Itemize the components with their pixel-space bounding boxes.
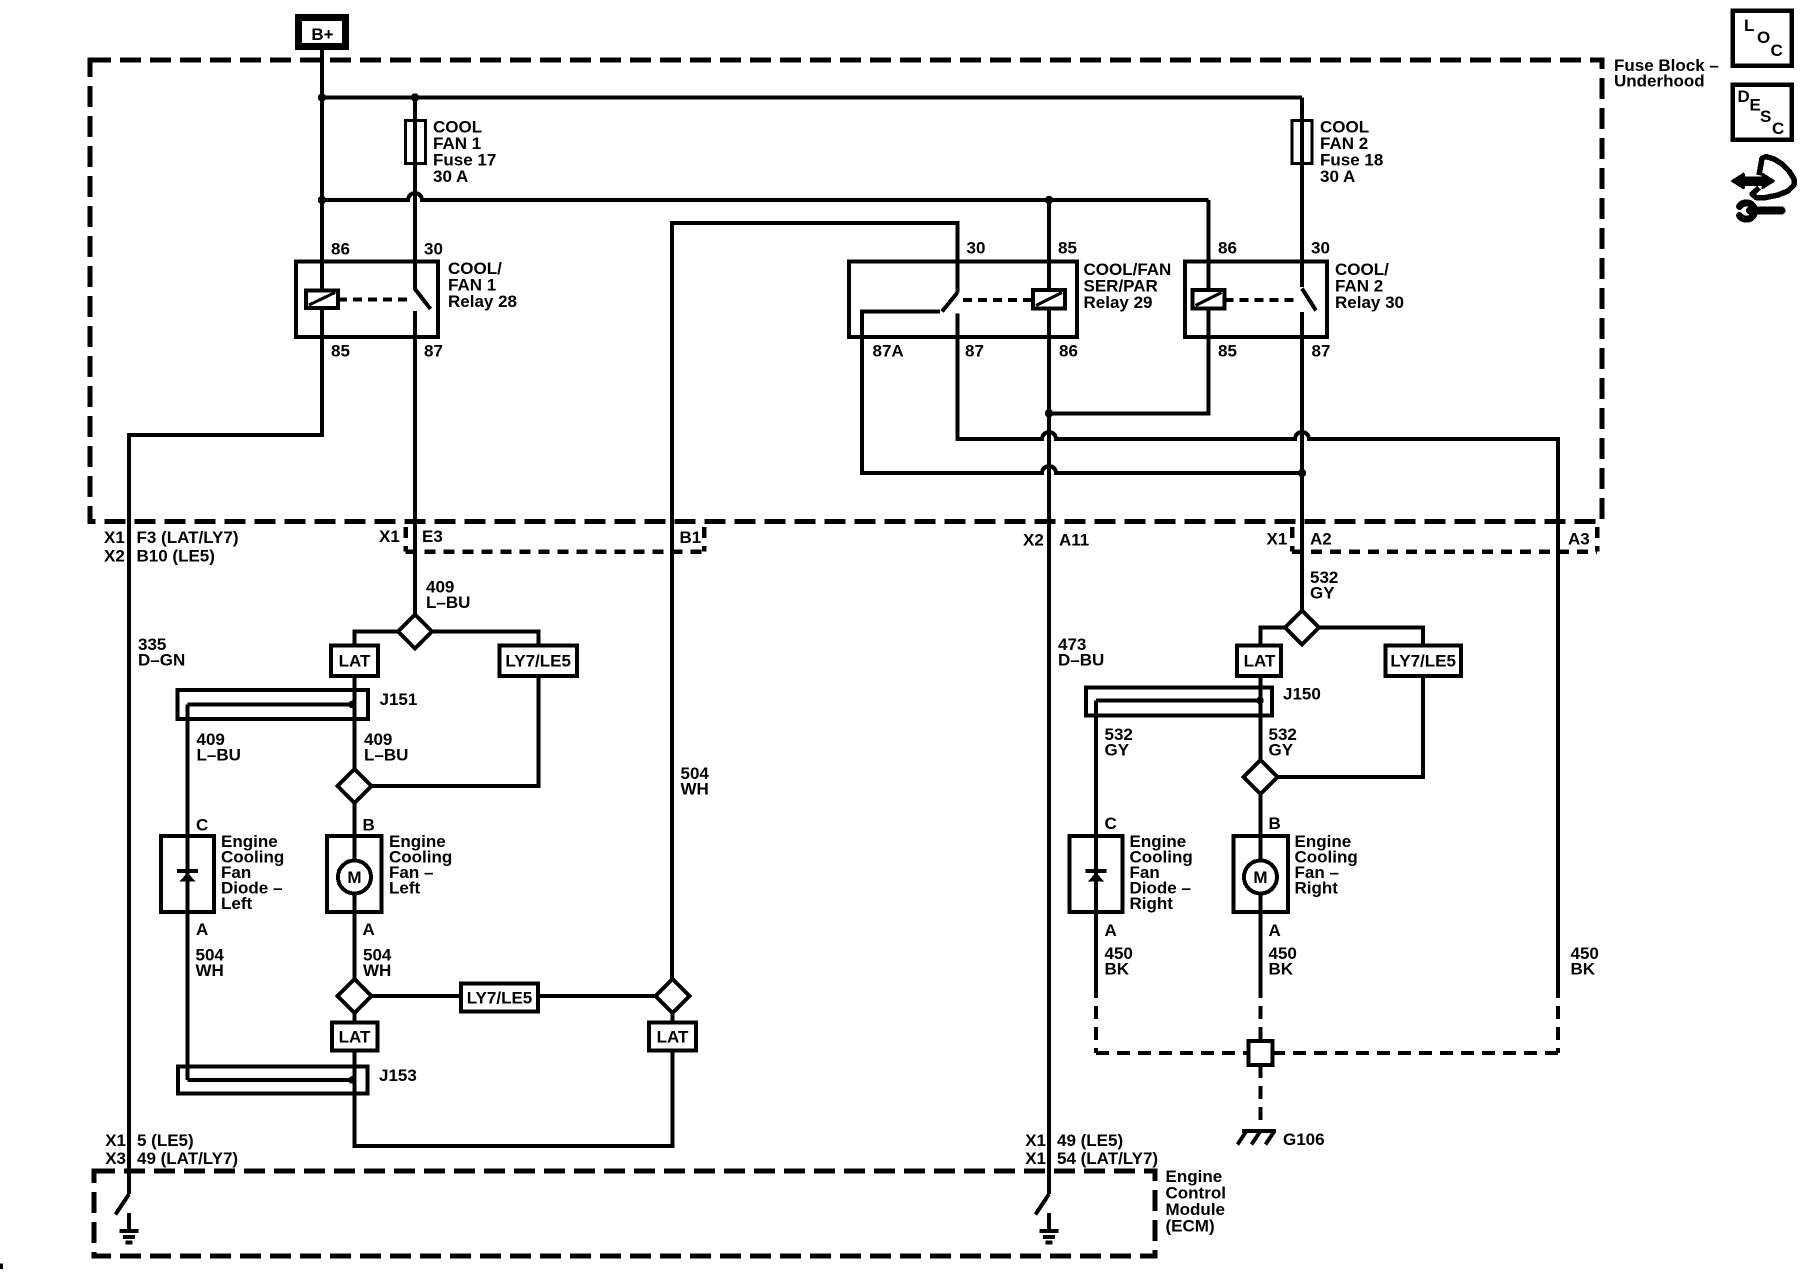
navigation arrows and wrench icon [1733,157,1795,220]
dashed wire right run to splice box [1273,1051,1559,1055]
svg-text:D–BU: D–BU [1058,651,1104,670]
svg-text:L–BU: L–BU [197,746,241,765]
wire relay 28 coil bottom to F3/B10 335 D-GN down to ECM [129,308,322,1194]
wire B1 bus from relay 29 pin 30 down to left fan circuit [672,223,958,979]
LY7/LE5 tag box left upper [500,646,578,677]
svg-text:X1: X1 [104,528,125,547]
splice diamond on 532 GY A2 [1285,611,1319,645]
svg-text:Relay 30: Relay 30 [1335,293,1404,312]
fuse block underhood dashed border [90,60,1602,522]
label 504 WH B1 wire [681,764,710,799]
wire J151 down to splice 409 L-BU [353,705,357,770]
wire LAT to J153 [353,1051,357,1081]
svg-text:30 A: 30 A [1320,167,1355,186]
label 450 BK fan branch [1269,944,1297,979]
label engine cooling fan right [1295,832,1358,898]
svg-text:B1: B1 [680,528,702,547]
node X2 A11 label [1023,531,1089,550]
svg-text:LAT: LAT [1244,652,1276,671]
LAT tag box right upper [1237,646,1281,677]
svg-text:86: 86 [331,240,350,259]
wire splice to LAT branch [355,632,399,646]
dashed wire splice box to G106 [1259,1065,1263,1122]
page corner artifact mark [0,1264,3,1270]
label 473 D-BU [1058,635,1104,670]
svg-text:X3: X3 [105,1149,126,1168]
relay 28 dashed actuator link [338,298,410,302]
node X1 E3 label [379,527,443,546]
wire LAT to J150 [1259,676,1263,701]
label engine control module [1166,1167,1226,1236]
ground G106 symbol [1238,1131,1277,1145]
svg-text:B+: B+ [311,25,333,44]
svg-text:30 A: 30 A [433,167,468,186]
svg-text:87: 87 [1312,342,1331,361]
wire top bus B+ to fuse 2 [322,96,1302,100]
svg-text:L–BU: L–BU [426,593,470,612]
wire second bus to relay 29 pin 85 and relay 30 pin 86 with hop over fuse 1 wire [322,193,1209,200]
node X1 F3 / X2 B10 labels [104,528,239,566]
relay 29 switch arm [942,293,958,312]
node X1 49 / X1 54 labels [1025,1131,1158,1168]
svg-text:D–GN: D–GN [138,651,185,670]
label 532 GY fan branch [1269,725,1297,760]
fuse F1 COOL FAN 1 [406,121,426,164]
dashed wire A3 450 BK to ground splice [1556,985,1560,1053]
LAT tag box left lower [332,1023,378,1051]
svg-text:30: 30 [967,239,986,258]
svg-text:87: 87 [965,342,984,361]
label Fuse Block - Underhood [1614,56,1719,91]
label engine cooling fan diode left [221,832,284,913]
node X1 A2 label [1267,530,1332,549]
svg-text:86: 86 [1218,239,1237,258]
battery B+ terminal box [299,18,346,47]
label 409 L-BU fan branch [364,730,408,765]
svg-text:A: A [1269,921,1281,940]
svg-text:85: 85 [1058,239,1077,258]
wire splice down to fan B [1259,794,1263,836]
svg-text:Relay 29: Relay 29 [1084,293,1153,312]
svg-text:C: C [1772,119,1784,138]
ECM left ground symbol [120,1213,139,1243]
svg-text:G106: G106 [1283,1130,1325,1149]
svg-text:B: B [1269,814,1281,833]
svg-text:GY: GY [1105,741,1130,760]
inline LY7/LE5 tag box [461,984,538,1012]
wire branch to relay 30 pin 85 [1049,309,1209,414]
svg-text:Underhood: Underhood [1614,72,1705,91]
wire splice to right LY7/LE5 box bottom [1278,676,1424,777]
wire splice to LY7/LE5 box bottom [372,676,539,786]
splice diamond above left fan [338,769,372,803]
ECM left internal ground blade [116,1194,130,1215]
junction dot fuse 1 tap [411,93,419,101]
svg-text:S: S [1760,107,1771,126]
svg-text:O: O [1757,28,1770,47]
node X1 5 / X3 49 labels [105,1131,238,1168]
svg-text:B: B [363,816,375,835]
relay 30 pin 87 wire down to A2 532 GY [1300,312,1304,611]
relay K30 COOL/FAN 2 Relay box [1185,262,1327,338]
svg-text:X1: X1 [1025,1131,1046,1150]
svg-text:L: L [1744,16,1754,35]
LAT tag box right lower [649,1023,696,1051]
wire splice down to fan B [353,803,357,836]
label 532 GY diode branch [1105,725,1133,760]
svg-text:85: 85 [331,342,350,361]
dashed wire fan A to ground splice [1259,985,1263,1041]
svg-text:30: 30 [424,240,443,259]
wire LAT to J151 [353,676,357,705]
relay 29 coil [1033,290,1065,309]
svg-text:X1: X1 [1025,1149,1046,1168]
svg-text:54 (LAT/LY7): 54 (LAT/LY7) [1057,1149,1158,1168]
LOC icon box [1733,11,1792,66]
svg-text:A: A [1105,921,1117,940]
svg-text:A: A [363,920,375,939]
svg-text:(ECM): (ECM) [1166,1217,1215,1236]
relay K29 COOL/FAN SER/PAR Relay box [849,262,1077,338]
svg-text:J150: J150 [1283,685,1321,704]
wire J151 left tap down to diode C 409 L-BU [186,705,190,837]
svg-text:C: C [1771,41,1783,60]
connector X1 fine dashed line A2 to A3 [1292,527,1597,552]
svg-text:E3: E3 [422,527,443,546]
svg-text:30: 30 [1311,239,1330,258]
svg-text:LY7/LE5: LY7/LE5 [505,652,571,671]
wire left splice to LAT [353,1013,357,1023]
label 409 L-BU at E3 [426,578,470,613]
svg-text:C: C [1105,814,1117,833]
wire J150 down to splice 532 GY [1259,701,1263,761]
splice diamond left fan A [338,979,372,1013]
svg-text:LAT: LAT [657,1028,689,1047]
relay 28 pin 87 lead [413,311,417,337]
LY7/LE5 tag box right upper [1386,646,1462,677]
engine cooling fan motor right box [1234,836,1289,985]
fuse F2 COOL FAN 2 [1292,121,1312,164]
label 335 D-GN [138,635,185,670]
splice diamond on 409 L-BU [398,615,432,649]
relay 30 dashed actuator link [1225,298,1296,302]
svg-text:X1: X1 [1267,530,1288,549]
svg-text:BK: BK [1105,960,1130,979]
wire splice to inline LY7/LE5 [372,994,462,998]
label relay 29 [1084,260,1172,312]
junction dot 87A to A2 wire [1298,469,1306,477]
wire diode A down to J153 [186,912,190,1080]
relay 28 switch arm [415,289,431,309]
label engine cooling fan left [389,832,452,898]
wire relay 30 pin 86 drop [1207,200,1211,290]
svg-text:X2: X2 [1023,531,1044,550]
svg-text:LY7/LE5: LY7/LE5 [467,989,533,1008]
junction dot relay 29 pin 85 tap [1045,196,1053,204]
connector X1 fine dashed line E3 to B1 [406,527,705,552]
svg-text:X1: X1 [105,1131,126,1150]
svg-text:C: C [196,816,208,835]
dashed wire left run to splice box [1096,1051,1249,1055]
DESC icon box [1733,85,1792,140]
svg-text:J151: J151 [380,690,418,709]
svg-text:WH: WH [363,961,391,980]
svg-text:M: M [1253,868,1267,887]
svg-text:X1: X1 [379,527,400,546]
wire relay 28 pin 87 down through E3 409 L-BU to splice [413,312,417,615]
svg-text:87: 87 [424,342,443,361]
label relay 30 [1335,260,1404,312]
LAT tag box left upper [331,646,378,677]
svg-text:Left: Left [389,879,421,898]
svg-text:Left: Left [221,894,253,913]
svg-text:5 (LE5): 5 (LE5) [137,1131,194,1150]
engine cooling fan diode right box [1070,836,1123,912]
wire J150 left tap down to diode C 532 GY [1094,701,1098,837]
wire inline box to right splice [538,994,656,998]
label 450 BK A3 wire [1571,944,1599,979]
label 504 WH fan branch [363,946,392,981]
svg-text:Right: Right [1130,894,1174,913]
svg-text:A3: A3 [1568,530,1590,549]
wire fuse 1 branch / relay 28 pin 30 [413,98,417,291]
label 504 WH diode branch [196,946,225,981]
svg-text:X2: X2 [104,547,125,566]
ground splice box [1249,1041,1273,1065]
splice pack J151 [178,690,369,719]
svg-text:B10 (LE5): B10 (LE5) [137,547,215,566]
engine cooling fan motor left box [327,836,382,979]
label engine cooling fan diode right [1130,832,1193,913]
junction dot relay 29 coil to relay 30 coil branch [1045,409,1053,417]
splice diamond above right fan [1244,760,1278,794]
relay 29 pin 87 wire across to A3 450 BK [958,314,1559,986]
svg-text:LY7/LE5: LY7/LE5 [1390,652,1456,671]
wire splice to right LAT branch [1261,628,1286,646]
svg-text:LAT: LAT [339,652,371,671]
relay 29 pin 87A lead and run to relay 30 pin 87 wire [862,312,1302,474]
wire right splice to LAT [671,1013,675,1023]
svg-text:WH: WH [681,780,709,799]
svg-text:D: D [1738,87,1750,106]
wire fuse 2 / relay 30 pin 30 [1300,98,1304,288]
svg-text:J153: J153 [379,1066,417,1085]
label 409 L-BU diode branch [197,730,241,765]
svg-text:WH: WH [196,961,224,980]
wire splice to LY7/LE5 branch [432,632,539,646]
svg-text:F3 (LAT/LY7): F3 (LAT/LY7) [137,528,239,547]
splice diamond B1 504 WH [656,979,690,1013]
svg-text:A11: A11 [1059,531,1089,550]
relay 28 coil [306,291,338,309]
dashed wire diode A to ground splice [1094,985,1098,1053]
wire B+ feed down to relay 28 coil [320,49,324,291]
wire relay 29 pin 85 drop [1047,200,1051,290]
relay 30 switch arm [1302,289,1316,311]
svg-text:Right: Right [1295,879,1339,898]
svg-text:49 (LAT/LY7): 49 (LAT/LY7) [137,1149,238,1168]
svg-text:87A: 87A [873,342,904,361]
svg-text:85: 85 [1218,342,1237,361]
splice pack J150 [1086,688,1272,716]
svg-text:A2: A2 [1310,530,1332,549]
svg-text:L–BU: L–BU [364,746,408,765]
svg-text:M: M [347,868,361,887]
wire splice to right LY7/LE5 branch [1319,628,1423,646]
relay 29 coil wire down to ECM A11 473 D-BU [1047,309,1051,1195]
svg-text:GY: GY [1269,741,1294,760]
svg-text:BK: BK [1269,960,1294,979]
wire diode A solid to dashed start [1094,912,1098,985]
svg-text:86: 86 [1059,342,1078,361]
svg-text:Relay 28: Relay 28 [448,292,517,311]
svg-text:GY: GY [1310,584,1335,603]
svg-text:BK: BK [1571,960,1596,979]
label fuse 18 [1320,118,1383,187]
junction dot B+ top bus [318,93,326,101]
engine control module dashed border [94,1171,1155,1256]
svg-text:LAT: LAT [339,1028,371,1047]
ECM right internal ground blade [1036,1194,1050,1215]
wire J153 down and across to right LAT [355,1051,673,1147]
label relay 28 [448,259,517,311]
engine cooling fan diode left box [161,836,214,912]
svg-text:49 (LE5): 49 (LE5) [1057,1131,1123,1150]
ECM right ground symbol [1040,1213,1059,1243]
splice pack J153 [178,1067,368,1094]
label fuse 17 [433,118,496,187]
relay 29 dashed actuator link [963,298,1033,302]
relay K28 COOL/FAN 1 Relay box [296,262,438,338]
relay 30 coil [1193,290,1225,309]
svg-text:A: A [196,920,208,939]
junction dot B+ second bus [318,196,326,204]
label 450 BK diode branch [1105,944,1133,979]
label 532 GY at A2 [1310,568,1338,603]
